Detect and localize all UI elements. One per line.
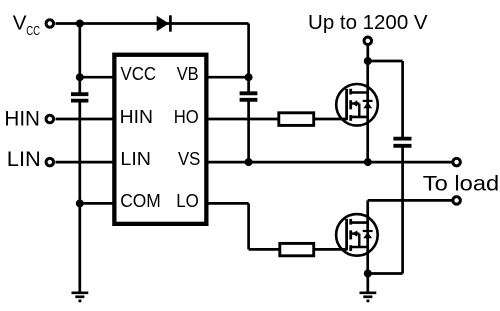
svg-text:LIN: LIN <box>120 148 151 169</box>
svg-text:V: V <box>13 12 27 35</box>
svg-text:CC: CC <box>26 23 40 38</box>
svg-text:VS: VS <box>178 148 200 169</box>
svg-text:Up to 1200 V: Up to 1200 V <box>308 12 428 34</box>
svg-text:HO: HO <box>174 106 199 127</box>
svg-text:To load: To load <box>423 173 499 196</box>
svg-text:VCC: VCC <box>121 63 157 84</box>
svg-text:LIN: LIN <box>7 148 41 171</box>
svg-text:LO: LO <box>176 190 199 211</box>
svg-text:VB: VB <box>177 63 199 84</box>
svg-text:COM: COM <box>120 190 161 211</box>
svg-text:HIN: HIN <box>4 107 40 130</box>
svg-text:HIN: HIN <box>120 106 153 127</box>
